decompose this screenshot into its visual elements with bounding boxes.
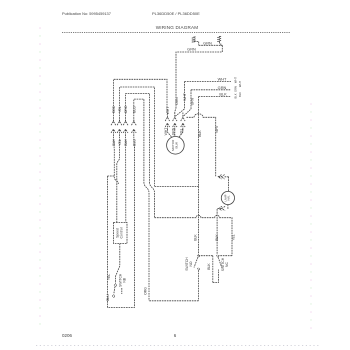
motor connector pin WHT [165,113,169,129]
ground terminal G2 [217,36,221,44]
harness loop 4 [134,99,144,182]
wire pair jog left (ORG) [144,182,149,301]
svg-text:BLK: BLK [234,93,238,98]
scan artifact dot column left [39,27,41,324]
svg-text:BLK: BLK [124,139,128,146]
svg-text:BLU: BLU [132,106,136,113]
switch NC blade [218,257,222,267]
svg-text:WHT: WHT [166,107,170,115]
connector P1 pin2 [117,119,122,126]
svg-text:BLK: BLK [207,263,211,270]
svg-text:BLW: BLW [174,142,178,148]
svg-text:Publication No: 5995459137: Publication No: 5995459137 [62,11,111,16]
wire labels [187,41,227,97]
lamp connector upper [218,175,228,179]
svg-text:BLK: BLK [238,92,242,97]
harness loop 2 [120,87,155,186]
wire GRN between ground terminals [199,44,223,46]
wire BLK2 into speed control [125,137,127,223]
switch NO contact top [198,255,200,257]
svg-text:YEL: YEL [118,139,122,146]
connector P2 pin2 arrow [117,129,122,136]
wire YEL into speed control [117,137,120,223]
connector P2 pin4 arrow [131,129,136,136]
label BLW MOTOR [171,139,179,151]
wire to lamp [228,177,230,192]
svg-text:WHT: WHT [164,128,168,136]
svg-text:HAL: HAL [227,195,231,201]
connector P1 pin3 [123,119,128,126]
motor connector pin GRN [173,113,177,130]
svg-text:BLK: BLK [193,234,197,241]
svg-text:ORG: ORG [143,287,147,295]
switch NC contact [217,255,219,257]
motor connector pin YEL [181,113,185,130]
svg-text:GRN: GRN [187,47,196,52]
svg-text:Control: Control [120,227,124,238]
wire into motor mid [174,129,176,137]
wire BLK mid vertical [213,256,219,283]
blower motor BLW MOTOR [167,137,185,155]
wire bottom horizontal [149,300,199,302]
svg-text:GRN: GRN [234,86,238,92]
scan artifact dotted bottom line [36,345,320,347]
wire GRN vertical curve to motor [175,107,176,113]
wire into motor right [179,129,183,138]
svg-text:BLU: BLU [106,294,110,301]
switch NO blade [194,257,198,267]
wire BLK top [199,96,232,98]
wire below switch NO [198,270,200,301]
harness loop 1 outer [113,79,167,121]
wire GRN drop [183,90,191,117]
svg-text:PL36DD50E / PL36DD50E: PL36DD50E / PL36DD50E [152,11,200,16]
speed control box [114,223,128,244]
wire BLU along box [133,137,136,148]
svg-text:YEL: YEL [107,274,111,281]
svg-text:GRN: GRN [203,41,212,46]
connector P1 pin4 [131,119,136,126]
switch NO tee [199,255,213,257]
lamp connector lower [217,206,225,212]
harness loop 3 [126,93,150,182]
svg-text:WHT: WHT [218,77,227,82]
svg-text:NO: NO [189,261,193,266]
title dashed rule [62,32,290,34]
wire WHT lamp feed with hop [187,114,216,177]
wire BLK lamp to switch [216,212,218,255]
svg-text:NB: NB [122,277,126,282]
svg-text:BLK: BLK [215,234,219,241]
connector P1 pin1 [111,119,116,126]
svg-text:YEL: YEL [179,128,183,135]
fan box enclosure [108,146,135,308]
wire BLK into box [113,137,118,184]
svg-text:BLU: BLU [132,139,136,146]
wire into motor left [167,129,172,138]
svg-text:BLK: BLK [112,139,116,146]
wire WHT drop [175,82,184,117]
label LAMP [223,194,230,201]
ground terminal G1 [192,37,199,46]
svg-text:GRN: GRN [171,127,175,135]
svg-text:ORG: ORG [124,105,128,113]
svg-text:WHT: WHT [234,77,238,83]
label speed control [116,227,124,238]
svg-text:WHT: WHT [183,93,187,101]
svg-text:0206: 0206 [62,333,73,338]
wire WHT top [185,81,232,83]
svg-text:RED: RED [112,105,116,113]
switch NB tick [121,288,123,294]
wire speed control link [155,185,199,187]
svg-text:WIRING DIAGRAM: WIRING DIAGRAM [156,25,199,30]
switch blade lower [114,287,115,295]
connector P2 pin1 arrow [111,129,116,136]
lamp [221,191,234,204]
connector P2 pin3 arrow [123,129,128,136]
wire below speed control [115,244,119,284]
scan artifact dot column right [310,103,312,329]
switch BLU contact [112,295,114,297]
wire pair jog right [150,182,155,218]
svg-text:GRN: GRN [175,97,179,105]
svg-text:GRN: GRN [218,85,227,90]
switch YEL contact [114,284,116,286]
wire from lamp [226,205,229,209]
wire GRN feed [176,45,222,107]
wire GRN top [191,89,231,91]
svg-text:WHT: WHT [238,81,242,87]
switch NC feed from YEL [219,255,232,257]
svg-text:GRN: GRN [190,97,194,105]
svg-text:YEL: YEL [231,234,235,241]
wire horizontal mid with hops [155,215,233,255]
switch NO contact bottom [198,268,200,270]
wire BLK motor drop [198,97,200,187]
svg-text:BLK: BLK [219,92,227,97]
svg-text:YEL: YEL [118,106,122,113]
svg-text:WHT: WHT [215,125,219,133]
svg-text:NC: NC [225,262,229,267]
wire BLK switch NO drop [198,186,200,254]
svg-text:BLK: BLK [198,130,202,137]
